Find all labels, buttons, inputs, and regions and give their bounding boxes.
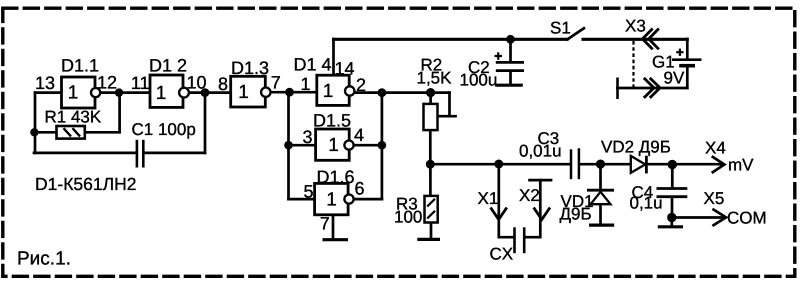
wire D1.6 output stub [354,198,382,201]
wire right bus from D1.4 output [381,93,384,200]
svg-text:1: 1 [328,135,339,156]
svg-text:X2: X2 [519,186,540,205]
svg-text:1: 1 [326,190,337,211]
capacitor C3 [571,148,579,179]
svg-text:10: 10 [187,73,207,93]
battery G1 [672,60,702,66]
diode VD2 [631,156,647,174]
ground C4 [658,225,683,228]
wire D1.2 output to D1.3 [189,91,231,94]
terminal X5 arrow [712,209,726,226]
inverter D1.2 [150,75,183,107]
bubble D1.3 output [261,88,270,97]
wire C2 stem top [509,39,512,61]
wire bottom loop right [145,152,206,155]
diode VD1 [587,190,614,204]
capacitor C2 plus [495,52,503,60]
wire mid rail right [580,163,722,166]
svg-text:6: 6 [355,179,365,199]
svg-text:1: 1 [156,83,167,104]
ground VD1 [589,224,614,227]
svg-text:D1.3: D1.3 [231,58,269,78]
inverter D1.6 [315,183,349,214]
svg-text:X5: X5 [704,189,725,208]
svg-text:C1 100p: C1 100p [132,120,196,139]
pin X2 arrowhead [534,208,550,220]
svg-text:7: 7 [320,214,330,234]
svg-text:S1: S1 [550,19,571,38]
connector X3 dashed link [632,41,634,87]
connector X3 terminal bar [616,78,619,100]
inverter D1.5 [316,129,350,160]
svg-text:5: 5 [303,182,313,202]
svg-text:3: 3 [302,127,312,147]
wire R3 top stem [429,164,432,196]
svg-text:CX: CX [490,245,514,264]
wire X2 top bar [530,179,551,182]
capacitor C1 [137,140,143,168]
wire C4 top stem [671,165,674,187]
wire pin14 riser [332,39,335,76]
capacitor C4 [657,189,688,197]
svg-text:0,01u: 0,01u [519,142,562,161]
wire R2 tap corner [448,93,451,117]
connector X3 plug chevrons [643,30,661,97]
capacitor CX [515,227,525,253]
wire VD1 top stem [599,164,602,189]
wire D1.3 output to D1.4 [270,91,316,94]
wire VD1 bottom stem [599,204,602,223]
wire D1.6 input stub [289,198,315,201]
inverter D1.4 [317,75,349,105]
svg-text:VD2 Д9Б: VD2 Д9Б [601,137,671,156]
switch S1 [567,28,586,41]
svg-text:X3: X3 [625,17,646,36]
svg-text:1,5K: 1,5K [417,69,453,88]
svg-text:D1 4: D1 4 [294,55,332,75]
svg-text:12: 12 [97,73,117,93]
svg-text:D1.6: D1.6 [317,167,355,187]
wire R1 right [85,93,120,133]
svg-text:D1.5: D1.5 [313,111,351,131]
wire C4 ground stem [670,218,673,226]
wire rail S1 to G1 [583,38,687,41]
resistor R3 [425,196,438,223]
pin X1 arrowhead [491,208,507,220]
bubble D1.4 output [345,86,354,95]
terminal X4 arrow [712,156,725,173]
bubble D1.2 output [179,88,189,98]
resistor R3 hatch [427,199,435,219]
bubble D1.1 output [91,88,100,97]
svg-text:D1-К561ЛН2: D1-К561ЛН2 [35,174,136,194]
svg-text:100: 100 [394,208,422,227]
wire G1 negative stem [686,67,689,88]
svg-text:R1 43K: R1 43K [45,108,102,127]
battery G1 plus [676,49,683,56]
svg-text:100u: 100u [460,71,498,90]
wire D1.5 input stub [289,144,316,147]
capacitor C2 [496,62,524,70]
bubble D1.5 output [344,141,353,150]
svg-text:mV: mV [728,156,754,175]
svg-text:11: 11 [131,73,150,93]
wire R1 left [34,131,56,134]
ground D1.6 pin7 [323,238,349,241]
ground R3 [417,238,440,241]
svg-text:D1 2: D1 2 [149,56,187,76]
wire D1.4 output to R2 node [354,91,449,94]
wire X1 drop to CX [499,164,513,237]
svg-text:8: 8 [218,74,228,94]
ground C2 [495,84,523,87]
svg-text:D1.1: D1.1 [61,56,99,76]
inverter D1.3 [231,76,266,107]
wire X5 output [672,216,724,219]
svg-text:X1: X1 [478,189,499,208]
wire D1.1 output to D1.2 [100,91,150,94]
wire riser to D1.2 output node [204,93,207,153]
svg-text:Рис.1.: Рис.1. [17,249,71,270]
resistor R2 [424,104,438,130]
svg-text:13: 13 [35,73,55,93]
wire C4 bottom stem [671,198,674,217]
wire G1 right drop [686,39,689,58]
svg-text:1: 1 [300,74,310,94]
wire X3 bottom return [618,87,688,90]
inverter D1.1 [62,77,96,108]
resistor R1 [57,126,85,139]
wire R2 bottom stem [429,130,432,164]
wire bottom loop left [34,152,136,155]
wire D1.5 output stub [354,144,382,147]
svg-text:1: 1 [323,81,334,102]
wire D1.1 input [35,91,62,94]
svg-text:9V: 9V [664,69,685,88]
bubble D1.6 output [344,195,353,204]
wire C2 stem bottom [509,72,512,84]
svg-text:Д9Б: Д9Б [560,205,592,224]
wire left feedback vertical [34,93,37,153]
wire R3 bottom stem [430,223,433,238]
svg-text:0,1u: 0,1u [630,194,663,213]
wire top power rail [334,38,568,41]
svg-text:1: 1 [68,83,79,104]
svg-text:7: 7 [271,73,281,93]
svg-text:COM: COM [727,209,767,228]
wire X2 drop to CX [526,180,541,237]
wire R2 top stem [429,93,432,104]
svg-text:2: 2 [356,75,366,95]
svg-text:4: 4 [354,125,364,145]
svg-text:1: 1 [238,82,249,103]
svg-text:14: 14 [335,59,355,79]
wire left bus to D1.5 D1.6 inputs [287,92,290,199]
resistor R1 hatch [64,128,81,136]
wire D1.6 pin7 ground stem [332,215,335,238]
wire R2 wiper tap [438,115,456,118]
svg-text:X4: X4 [705,139,726,158]
wire mid rail left [430,163,569,166]
